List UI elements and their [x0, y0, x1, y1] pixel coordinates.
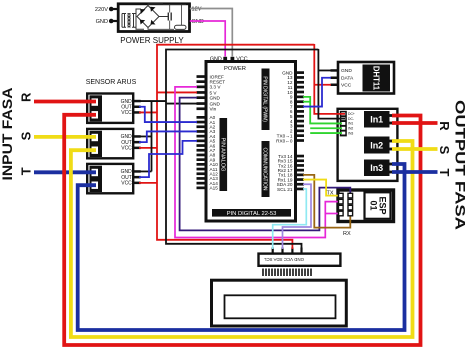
arduino right communication pins [295, 155, 305, 191]
svg-text:In3: In3 [370, 163, 383, 173]
svg-text:220V: 220V [95, 7, 108, 13]
svg-text:GND: GND [210, 57, 222, 63]
svg-text:A15: A15 [210, 186, 219, 191]
svg-text:VCC: VCC [121, 110, 132, 116]
svg-text:GND: GND [96, 19, 108, 25]
svg-text:SCL 21: SCL 21 [277, 187, 293, 192]
svg-text:POWER: POWER [224, 66, 246, 72]
svg-text:VCC: VCC [121, 181, 132, 187]
wire CS1 OUT to arduino A1 (blue) [139, 107, 197, 122]
wire GND black rail: arduino GND, sensor GNDs, DHT GND, relay DC-, LCD GND [139, 49, 345, 249]
wire 5V/VCC red rail: arduino 5V, sensor VCCs, DHT VCC, relay DC+, LCD VCC [139, 44, 345, 249]
relay output pins [390, 114, 395, 173]
svg-text:OUTPUT FASA: OUTPUT FASA [453, 100, 468, 230]
svg-text:RX0←0: RX0←0 [276, 138, 293, 143]
wire arduino Tx1 18 to ESP RX (brown) [303, 175, 350, 228]
svg-text:S: S [18, 131, 33, 140]
arduino right digital pin labels [276, 70, 293, 143]
svg-text:GND: GND [210, 96, 221, 101]
wire PSU 12V to Arduino VCC pin (gray) [190, 9, 233, 57]
LCD header comb [263, 269, 311, 277]
wire arduino pin 11 to relay IN1 (green) [303, 97, 342, 124]
wire arduino Rx1 19 to ESP TX (yellow) [303, 180, 339, 196]
svg-text:R: R [18, 92, 33, 102]
LCD screen [225, 295, 336, 318]
svg-text:DC-: DC- [348, 117, 354, 121]
svg-text:PIN ANALOG: PIN ANALOG [219, 138, 225, 172]
PIN DIGITAL (PWM) bar [262, 69, 270, 131]
CS2 pin labels [121, 134, 133, 151]
svg-text:Vin: Vin [210, 107, 217, 112]
arduino top pin VCC [231, 57, 235, 62]
wire phase R return loop to relay In1 (red) [64, 115, 420, 345]
CS3 pins GND OUT VCC [133, 170, 141, 184]
svg-text:01: 01 [369, 200, 379, 210]
svg-text:POWER SUPPLY: POWER SUPPLY [120, 36, 184, 45]
wire output S stub (yellow) [392, 147, 438, 151]
DHT11 pins GND DATA VCC [331, 69, 339, 86]
relay module K1 box [338, 109, 398, 181]
svg-text:COMMUNICATION: COMMUNICATION [262, 148, 268, 191]
current sensor module CS3 box [87, 164, 133, 193]
svg-text:VCC: VCC [341, 83, 352, 89]
svg-text:R: R [437, 121, 452, 131]
wire phase R input (red) [34, 100, 96, 104]
svg-text:3.3 V: 3.3 V [210, 85, 222, 90]
wire arduino SCL 21 to LCD SCL (cyan) [273, 189, 307, 249]
arduino left power pins IOREF..Vin [197, 75, 207, 110]
current sensor module CS1 box [87, 94, 133, 123]
svg-text:TX: TX [327, 190, 334, 196]
CS1 input connector [90, 95, 103, 121]
svg-text:RX: RX [343, 231, 351, 237]
svg-text:IN3: IN3 [348, 131, 353, 135]
CS1 pin labels [121, 99, 133, 116]
arduino top pin GND [223, 57, 227, 62]
wire ESP CH_PD branch (magenta) [325, 213, 338, 215]
wire CS3 OUT to arduino A5 (blue) [139, 141, 197, 177]
PIN ANALOG bar [220, 118, 228, 191]
svg-text:In1: In1 [370, 115, 383, 125]
svg-text:VCC: VCC [121, 146, 132, 152]
transformer T1 [122, 9, 144, 29]
wire relay IN2 branch (green) [310, 127, 342, 129]
relay header labels DC+ DC- IN1 IN2 IN3 [348, 112, 355, 135]
svg-text:T: T [437, 169, 452, 177]
svg-text:12V: 12V [192, 7, 202, 13]
svg-text:INPUT FASA: INPUT FASA [0, 87, 15, 180]
ESP-01 inner body [365, 192, 391, 219]
CS2 pins GND OUT VCC [133, 135, 141, 149]
capacitor C1 [163, 5, 186, 30]
svg-text:DHT11: DHT11 [371, 66, 380, 91]
wire phase S input (yellow) [34, 135, 96, 139]
wire phase T input (blue) [34, 170, 96, 174]
svg-text:IN2: IN2 [348, 127, 353, 131]
bridge rectifier BR1 [137, 4, 174, 29]
relay In2 block [364, 137, 390, 154]
relay In3 block [364, 160, 390, 177]
CS2 input connector [90, 131, 103, 157]
relay In1 block [364, 111, 390, 128]
current sensor module CS2 box [87, 129, 133, 158]
ESP-01 header pins 2x4 [339, 193, 353, 216]
DHT11 pin labels [341, 68, 354, 88]
CS3 pin labels [121, 169, 133, 186]
wire phase S return loop to relay In2 (yellow) [71, 141, 413, 337]
DHT11 sensor U4 box [338, 62, 394, 94]
CS3 input connector [90, 166, 103, 192]
PIN DIGITAL 22-53 bar [212, 209, 291, 217]
arduino left pin labels power block [210, 74, 226, 111]
svg-text:DC+: DC+ [348, 112, 355, 116]
svg-text:T: T [18, 167, 33, 175]
wire arduino pin 10 joins green rail [303, 101, 310, 103]
svg-text:IN1: IN1 [348, 122, 353, 126]
backpack pins [272, 248, 303, 254]
svg-text:In2: In2 [370, 140, 383, 150]
wire PSU GND to Arduino top GND pin (magenta) [190, 21, 225, 57]
wire CS2 OUT to arduino A3 (blue) [139, 131, 197, 142]
svg-text:SENSOR ARUS: SENSOR ARUS [86, 79, 137, 86]
CS1 pins GND OUT VCC [133, 100, 141, 114]
power supply PSU1 box [118, 4, 189, 32]
wire DHT11 DATA to arduino pin 9 (blue) [303, 78, 331, 107]
LCD I2C backpack box [259, 254, 341, 266]
wire arduino GND to ESP GND (indigo) [180, 98, 351, 231]
wire output T stub (blue) [392, 170, 438, 174]
svg-text:GND: GND [192, 19, 204, 25]
wire relay IN3 branch (green) [310, 132, 342, 134]
svg-text:DATA: DATA [341, 76, 354, 82]
svg-text:GND VCC SDA SCL: GND VCC SDA SCL [263, 257, 304, 262]
LCD display module box [212, 280, 347, 326]
ESP-01 module U5 outer box [338, 190, 394, 222]
arduino analog pin labels [210, 115, 219, 191]
svg-text:GND: GND [341, 68, 352, 74]
svg-text:PIN DIGITAL (PWM): PIN DIGITAL (PWM) [262, 76, 268, 122]
arduino mega U1 body [206, 62, 296, 222]
regulator U3 pill [175, 25, 187, 29]
wire phase T return loop to relay In3 (blue) [78, 164, 405, 330]
svg-text:PIN DIGITAL 22-53: PIN DIGITAL 22-53 [227, 211, 277, 217]
DHT11 black body [363, 65, 391, 92]
COMMUNICATION bar [262, 141, 270, 197]
svg-text:VCC: VCC [236, 57, 247, 63]
wire arduino SDA 20 to LCD SDA (lavender) [283, 184, 312, 249]
arduino right digital pins GND..RX0 [295, 71, 305, 142]
relay control header [340, 111, 347, 137]
arduino communication pin labels [277, 154, 293, 192]
svg-text:S: S [437, 146, 452, 155]
wire output R stub (red) [392, 121, 438, 125]
wire arduino 3.3V to ESP VCC/CH_PD (magenta) [175, 87, 339, 238]
arduino left analog pins A0..A15 [197, 116, 207, 189]
